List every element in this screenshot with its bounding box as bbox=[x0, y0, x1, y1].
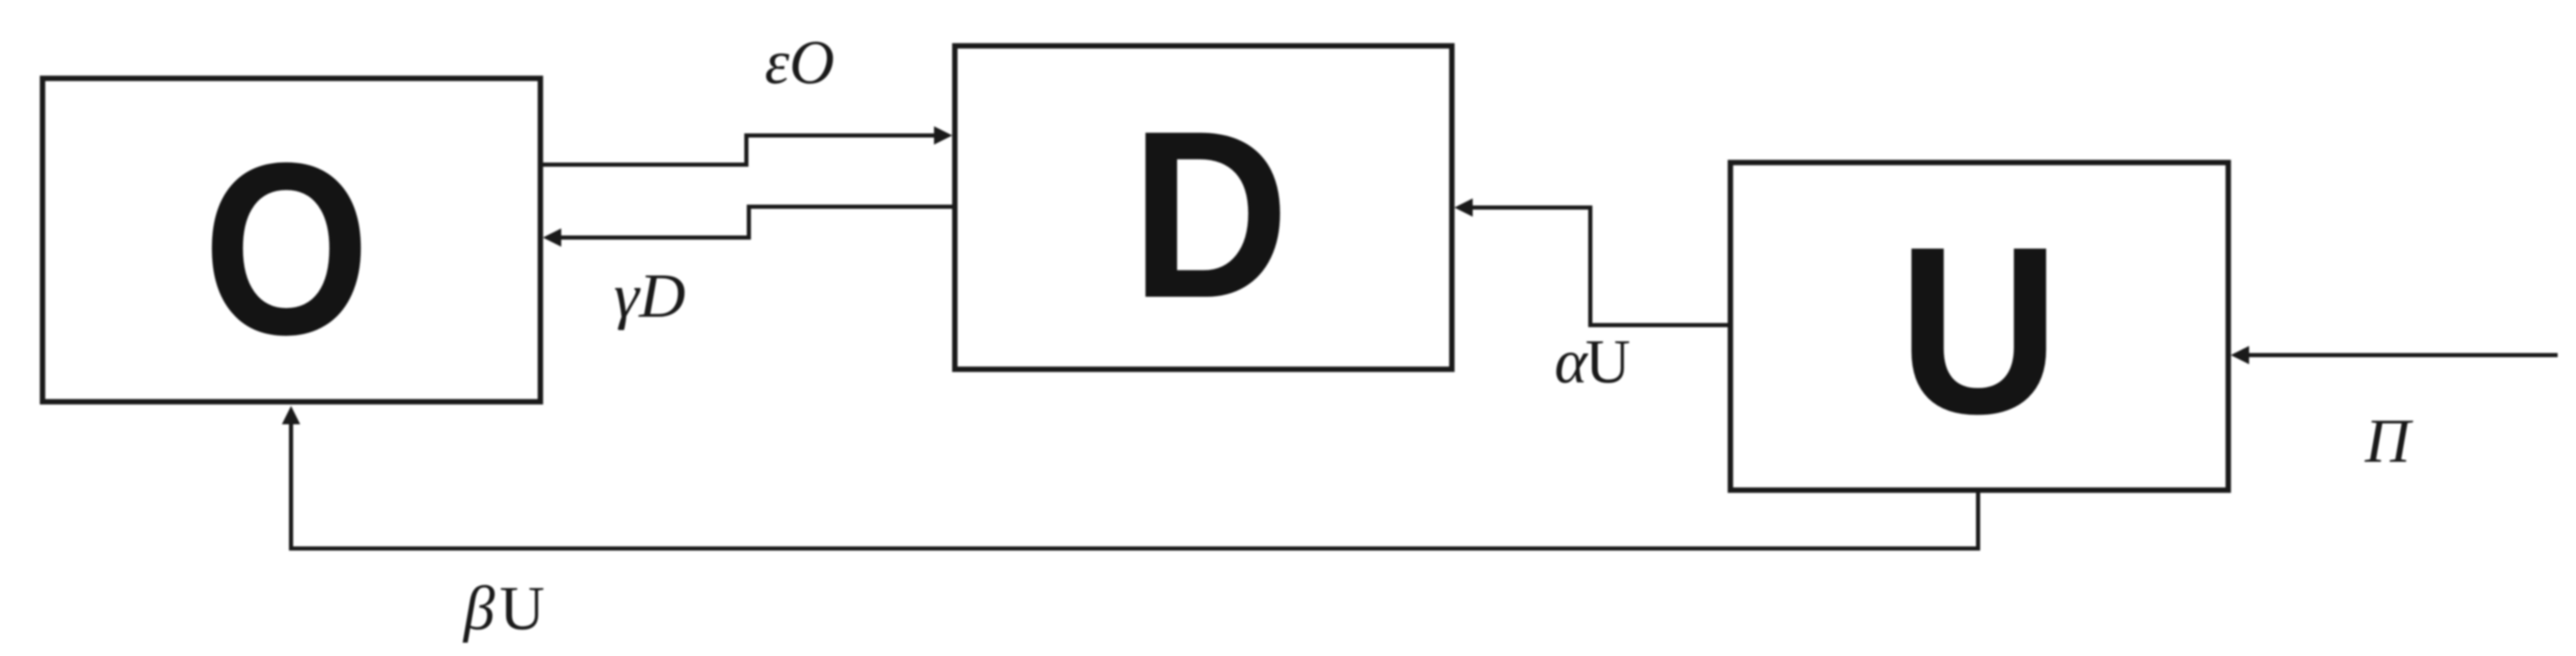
wire betaU: U bottom down, left, up into O bottom, arrow up bbox=[282, 406, 1978, 548]
wire Pi: from right margin into U right edge bbox=[2231, 346, 2558, 364]
svg-text:Π: Π bbox=[2364, 407, 2413, 476]
svg-text:U: U bbox=[1585, 328, 1630, 397]
svg-text:α: α bbox=[1554, 328, 1589, 397]
svg-text:D: D bbox=[1131, 81, 1289, 348]
wire gammaD: D left edge to O right edge with step down, arrow into O bbox=[543, 207, 952, 247]
label alpha-U bbox=[1554, 328, 1630, 397]
svg-text:β: β bbox=[462, 574, 495, 643]
svg-text:γD: γD bbox=[614, 262, 685, 331]
box U bbox=[1730, 163, 2228, 490]
svg-text:U: U bbox=[1898, 197, 2060, 463]
svg-text:O: O bbox=[203, 113, 370, 386]
svg-text:U: U bbox=[500, 574, 545, 643]
svg-text:εO: εO bbox=[765, 28, 835, 98]
label beta-U bbox=[462, 574, 545, 643]
wire epsilonO: O right edge to D left edge with step up, arrow into D bbox=[543, 127, 952, 165]
box D bbox=[955, 46, 1452, 369]
wire alphaU: U left edge to D right edge with step up, arrow into D bbox=[1454, 198, 1728, 325]
box O bbox=[43, 78, 540, 402]
